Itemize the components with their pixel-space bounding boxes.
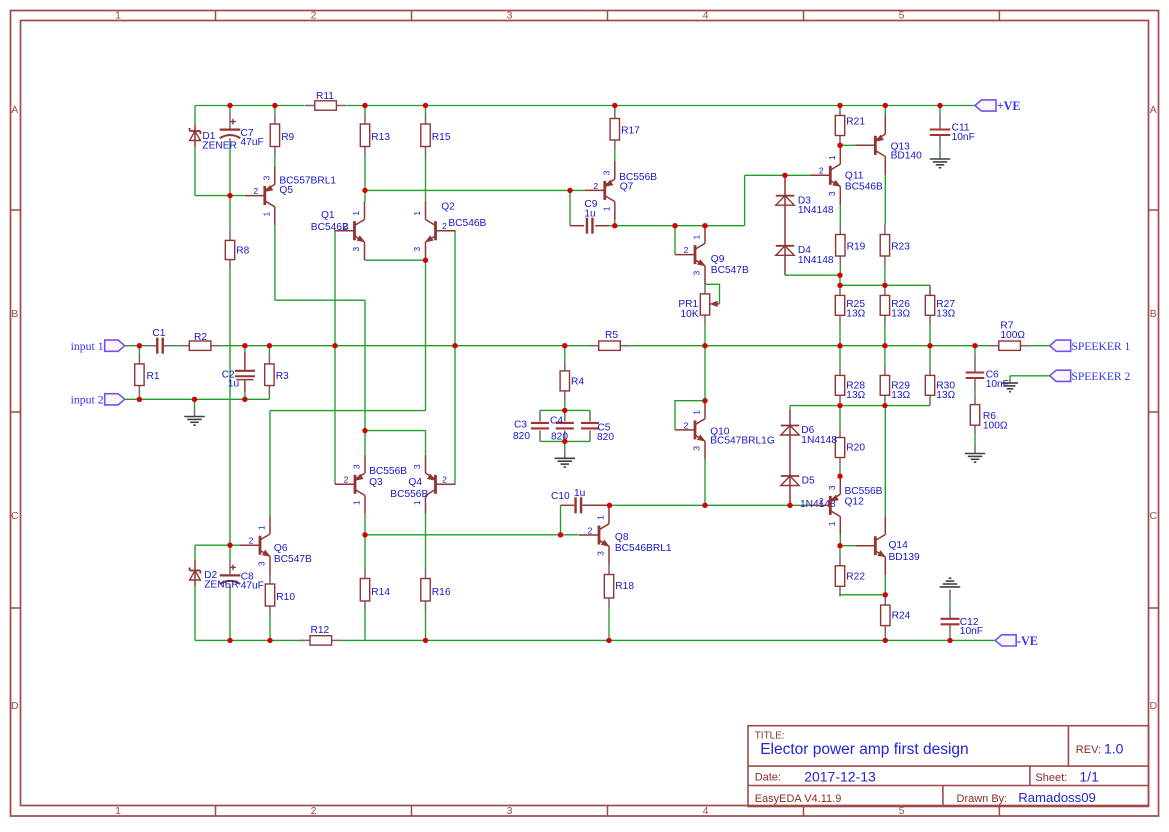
junction at (884.9,285.3) [882,283,887,288]
wire C7 top lead [229,106,231,114]
svg-text:2: 2 [819,496,824,506]
resistor R16 [421,569,451,612]
diode D5 [781,476,815,487]
svg-text:4: 4 [703,805,709,817]
wire C1 to R2 [171,345,179,347]
junction at (705,505.3) [702,503,707,508]
wire upper 13ohm rail [840,284,930,286]
svg-text:3: 3 [261,175,271,180]
svg-text:R20: R20 [846,443,865,454]
svg-text:2: 2 [344,475,349,485]
wire x365 vertical to Q3/Q4 emitter node [364,300,366,430]
diode D1 lead [194,125,196,148]
transistor Q14 [855,516,920,575]
svg-text:BC556B: BC556B [390,489,428,500]
resistor R12 [300,625,342,645]
transistor Q8 [579,506,672,565]
svg-text:13Ω: 13Ω [936,308,955,319]
ground [930,159,951,168]
transistor Q1 [311,201,365,260]
resistor R22 [835,556,865,597]
wire +VE top rail right segment [347,105,975,107]
svg-text:BC546B: BC546B [448,218,486,229]
wire R27 bottom filler [929,325,931,345]
svg-text:2: 2 [311,805,317,817]
svg-text:1: 1 [692,410,702,415]
svg-text:A: A [11,104,18,116]
svg-text:10nF: 10nF [952,132,975,143]
svg-text:input 1: input 1 [71,339,104,353]
transistor Q11 [810,146,883,205]
wire R6 gnd stub [974,435,976,444]
svg-text:47uF: 47uF [241,581,264,592]
wire R19 bottom filler [839,266,841,275]
svg-text:R3: R3 [276,371,289,382]
wire C10 right lead [582,504,609,506]
svg-text:2: 2 [684,245,689,255]
svg-text:13Ω: 13Ω [891,390,910,401]
ground [184,417,205,426]
svg-text:BD139: BD139 [889,552,920,563]
capacitor C9 [584,199,597,234]
svg-text:2: 2 [819,166,824,176]
C7 leads [229,114,231,129]
svg-text:1u: 1u [228,378,239,389]
svg-text:R9: R9 [281,132,294,143]
svg-text:C3: C3 [514,420,527,431]
junction at (194.5,399.3) [192,397,197,402]
svg-text:1N4148: 1N4148 [801,435,837,446]
resistor R29 [880,365,910,405]
wire R3 top [268,346,270,354]
C4 leads [564,410,566,421]
C8 leads [229,560,231,574]
junction at (244.9,399.3) [242,397,247,402]
junction at (705,345.7) [702,343,707,348]
wire Q1 base column [334,231,336,485]
junction at (455,345.7) [452,343,457,348]
wire Q8 emitter to R18 [608,564,610,566]
wire Q5 collector down [274,225,276,300]
junction at (609,640.4) [606,638,611,643]
C2 leads [244,352,246,371]
resistor R21 [835,106,865,146]
junction at (269.4,345.7) [267,343,272,348]
svg-text:2: 2 [249,536,254,546]
ground [940,578,961,587]
junction at (975,345.7) [972,343,977,348]
svg-text:2: 2 [593,181,598,191]
resistor R5 [589,330,631,350]
svg-text:R13: R13 [371,132,390,143]
svg-text:Q1: Q1 [321,210,335,221]
transistor Q5 [245,166,337,225]
resistor R11 [305,91,347,110]
svg-text:SPEEKER 1: SPEEKER 1 [1071,340,1130,353]
wire R13 bottom [364,157,366,191]
svg-text:3: 3 [412,247,422,252]
svg-text:R2: R2 [194,332,207,343]
wire PR1 bottom to main node [704,325,706,346]
wire to Q4 emitter [425,431,427,455]
wire Q10 emitter down [704,459,706,505]
svg-text:2: 2 [588,525,593,535]
wire cap bank top rail [540,409,590,411]
wire Q8 collector node [610,504,811,506]
capacitor C3 [514,420,549,431]
svg-text:Q7: Q7 [620,182,634,193]
wire R17 bottom to Q7 [614,150,616,161]
capacitor C6 [966,370,1009,390]
svg-text:R11: R11 [316,91,334,102]
svg-text:3: 3 [507,805,513,817]
transistor Q7 [585,161,657,220]
svg-text:2: 2 [442,221,447,231]
junction at (840,405.6) [837,403,842,408]
wire R4 top [564,346,566,361]
wire Q10 base loop [675,401,705,430]
svg-text:1N4148: 1N4148 [798,255,834,266]
junction at (790,505.3) [787,503,792,508]
C1 leads [148,345,156,347]
wire R26 bottom filler [884,325,886,345]
svg-text:3: 3 [412,464,422,469]
ground [1002,383,1018,392]
svg-text:BC556B: BC556B [369,466,407,477]
svg-text:1: 1 [115,10,121,22]
svg-text:1: 1 [257,525,267,530]
svg-text:-VE: -VE [1017,634,1038,648]
svg-text:R21: R21 [846,117,865,128]
wire R16 bottom [425,611,427,640]
svg-text:BC556B: BC556B [845,486,883,497]
svg-text:R14: R14 [371,587,390,598]
junction at (365,534.8) [362,532,367,537]
junction at (564.8,441.4) [562,439,567,444]
svg-text:R8: R8 [236,246,249,257]
wire R20 bottom to Q12 [839,468,841,477]
junction at (950,640.4) [947,638,952,643]
svg-text:1/1: 1/1 [1079,768,1099,784]
svg-text:BC547BRL1G: BC547BRL1G [710,436,775,447]
junction at (885.3,640.4) [883,638,888,643]
capacitor C5 [581,423,611,434]
svg-text:3: 3 [827,191,837,196]
svg-text:C1: C1 [152,328,165,339]
wire R10 bottom [269,616,271,640]
svg-text:Q5: Q5 [279,185,293,196]
wire Q11 emitter to R19 [839,205,841,225]
svg-text:1: 1 [827,155,837,160]
junction at (570,190.4) [567,188,572,193]
svg-text:D5: D5 [802,476,815,487]
wire R14 top [364,535,366,569]
svg-text:Ramadoss09: Ramadoss09 [1018,790,1096,805]
wire R2 to VAS node [221,345,589,347]
junction at (425.5,105.5) [423,103,428,108]
wire Q13 emitter top [884,106,886,117]
wire C10 branch up [560,505,562,535]
C3 leads [539,410,541,421]
svg-text:B: B [11,308,18,320]
svg-text:R15: R15 [432,132,451,143]
svg-text:1: 1 [412,211,422,216]
wire Q9 collector [704,224,706,227]
svg-text:1: 1 [601,206,611,211]
wire Q3 collector down [364,514,366,535]
svg-text:2017-12-13: 2017-12-13 [804,768,876,784]
resistor R14 [360,569,390,612]
wire R9 bottom to Q5 emitter [274,157,276,167]
wire R29 top filler [884,346,886,366]
wire Q7 base node down to C9 [569,190,571,225]
resistor R20 [835,428,865,468]
svg-text:Date:: Date: [755,772,781,784]
resistor R7 [989,321,1031,351]
wire tail horizontal to Q6 [270,410,426,412]
svg-text:Q8: Q8 [615,532,629,543]
capacitor C4 [550,415,574,428]
wire lower 13ohm rail [790,405,930,407]
transistor Q10 [675,400,775,459]
wire diff pair tail down [425,260,427,410]
junction at (425.5,260.2) [423,258,428,263]
svg-text:1: 1 [692,234,702,239]
resistor R15 [421,114,451,157]
svg-text:R4: R4 [571,377,584,388]
svg-text:A: A [1150,104,1157,116]
wire R1 top [138,346,140,354]
svg-text:10nF: 10nF [986,379,1009,390]
junction at (274.9,105.5) [272,103,277,108]
wire R30 top filler [929,346,931,366]
svg-text:13Ω: 13Ω [936,390,955,401]
svg-text:100Ω: 100Ω [1000,330,1025,341]
junction at (885.3,594.8) [883,592,888,597]
junction at (564.8,345.7) [562,343,567,348]
svg-text:C: C [11,510,19,522]
wire R24 bottom [884,636,886,641]
svg-text:Q6: Q6 [274,543,288,554]
svg-text:BD140: BD140 [891,150,922,161]
junction at (139.4,345.7) [137,343,142,348]
svg-text:1N4148: 1N4148 [798,205,834,216]
svg-text:D: D [11,700,19,712]
svg-text:BC547B: BC547B [274,554,312,565]
wire node y190 to Q7 base [365,189,585,191]
transistor Q13 [855,116,922,175]
svg-text:C4: C4 [550,415,563,426]
junction at (230,105.5) [227,103,232,108]
net flag SPEEKER 1 [1050,340,1131,353]
wire input2 line [125,398,270,400]
svg-text:1: 1 [827,521,837,526]
svg-text:R1: R1 [147,371,160,382]
wire SPEEKER2 line [1010,375,1050,377]
transistor Q3 [335,455,407,514]
resistor R3 [265,354,289,396]
diode D1 [190,128,237,151]
wire D6 D5 string lead [789,410,791,506]
transistor Q4 [390,455,455,514]
wire -VE bottom rail left [195,639,304,641]
diode D3 [776,195,834,216]
svg-text:Elector power amp first design: Elector power amp first design [760,741,968,758]
svg-text:820: 820 [597,432,614,443]
wire Q5 collector to x365 [275,299,365,301]
diode D2 [190,568,239,591]
wire D1 branch bottom [194,147,196,196]
junction at (840,345.7) [837,343,842,348]
transistor Q6 [240,516,312,575]
wire C12 bottom [949,625,951,634]
wire R27 corner [929,285,931,295]
resistor R28 [835,365,865,405]
junction at (884.9,405.6) [882,403,887,408]
junction at (840,275.2) [837,273,842,278]
wire C2 bottom [244,392,246,399]
capacitor C10 [576,497,582,513]
wire R21 bottom to node [839,144,841,146]
wire C11 gnd stub [939,135,941,148]
wire R18 bottom [608,608,610,640]
svg-text:1: 1 [412,500,422,505]
wire Q12 node to Q14 base [840,545,855,547]
net flag input 1 [71,339,125,353]
svg-text:BC547B: BC547B [711,265,749,276]
wire node y196 horizontal to Q5 base [195,195,245,197]
wire Q3 collector node to Q8 base [365,534,561,536]
svg-text:R5: R5 [605,330,618,341]
svg-text:2: 2 [442,475,447,485]
wire C6 top [974,346,976,356]
junction at (884.9,345.7) [882,343,887,348]
svg-text:1: 1 [115,805,121,817]
junction at (230,545.2) [227,543,232,548]
wire C11 top [939,106,941,115]
diode D6 [781,425,838,446]
svg-text:13Ω: 13Ω [846,390,865,401]
junction at (675,225.7) [672,223,677,228]
wire cap bank gnd stub [564,441,566,450]
svg-text:100Ω: 100Ω [983,421,1008,432]
wire Q9 base jog [674,226,676,255]
C9 leads [569,225,571,227]
wire R14 bottom [364,611,366,640]
junction at (840,476.2) [837,474,842,479]
wire C7 bottom to node [229,142,231,196]
resistor R25 [835,285,865,325]
wire cap bank bottom rail [540,440,590,442]
wire +VE top rail left segment [195,105,304,107]
svg-text:Drawn By:: Drawn By: [957,793,1008,805]
svg-text:R18: R18 [615,581,634,592]
wire SPEEKER2 gnd stub [1009,376,1011,380]
svg-text:R22: R22 [846,572,865,583]
resistor R6 [970,395,1008,436]
svg-text:R24: R24 [892,611,911,622]
junction at (614.8,225.7) [612,223,617,228]
resistor R17 [610,109,640,151]
svg-text:R19: R19 [847,242,866,253]
svg-text:3: 3 [827,485,837,490]
resistor R30 [925,365,955,405]
junction at (705,400.7) [702,398,707,403]
junction at (270,640.4) [267,638,272,643]
resistor R18 [604,565,634,609]
wire D3 D4 string lead [784,175,786,275]
junction at (365,190.4) [362,188,367,193]
wire R9 top filler [274,106,276,115]
svg-text:13Ω: 13Ω [891,308,910,319]
wire R8 top [229,196,231,231]
wire Q14 collector up to rail [884,406,886,517]
svg-text:Q14: Q14 [889,540,909,551]
junction at (840,545.7) [837,543,842,548]
svg-text:Q2: Q2 [441,202,455,213]
svg-text:ZENER: ZENER [202,140,237,151]
resistor R9 [270,114,294,157]
svg-text:3: 3 [351,247,361,252]
svg-text:47uF: 47uF [241,137,264,148]
junction at (244.9,345.7) [242,343,247,348]
wire C12 gnd stub [949,590,951,601]
svg-text:3: 3 [352,464,362,469]
svg-text:+VE: +VE [997,99,1021,113]
ground [965,454,986,463]
potentiometer PR1 [678,284,719,325]
capacitor C7 [220,119,264,148]
wire Q11 base line [745,174,811,176]
wire D4 to R19 node [785,274,840,276]
wire R1 bottom [138,396,140,400]
svg-text:R12: R12 [311,625,330,636]
wire Q13 collector down to R23 [884,175,886,225]
resistor R4 [560,361,584,401]
title block [748,726,1149,807]
svg-text:3: 3 [692,270,702,275]
junction at (230,195.6) [227,193,232,198]
wire Q2 base column [454,231,456,485]
svg-text:2: 2 [253,186,258,196]
capacitor C11 [930,122,975,142]
wire node to Q3 emitter [364,431,366,455]
svg-text:EasyEDA V4.11.9: EasyEDA V4.11.9 [755,793,842,805]
capacitor C12 [941,617,984,637]
wire R8 bottom long vertical to Q6 base node [229,270,231,546]
svg-text:C10: C10 [551,491,570,502]
svg-text:2: 2 [684,420,689,430]
svg-text:10nF: 10nF [960,626,983,637]
svg-text:Q9: Q9 [711,254,725,265]
resistor R8 [225,230,249,269]
wire Q13 base [840,144,855,146]
wire R3 bottom [268,396,270,400]
capacitor C1 [152,328,165,354]
junction at (940,105.5) [937,103,942,108]
svg-text:R23: R23 [891,242,910,253]
wire node to Q4 emitter horizontal [365,430,426,432]
wire Q9 emitter to PR1 node [704,283,706,286]
wire R19 node link [839,275,841,285]
svg-text:10K: 10K [681,309,699,320]
svg-text:Sheet:: Sheet: [1035,772,1067,784]
wire Q4 collector to R16 [425,514,427,569]
junction at (365,105.5) [362,103,367,108]
wire R15 bottom to Q2 collector [425,157,427,202]
resistor R13 [360,114,390,157]
wire Q8 base pin gap [561,504,575,506]
